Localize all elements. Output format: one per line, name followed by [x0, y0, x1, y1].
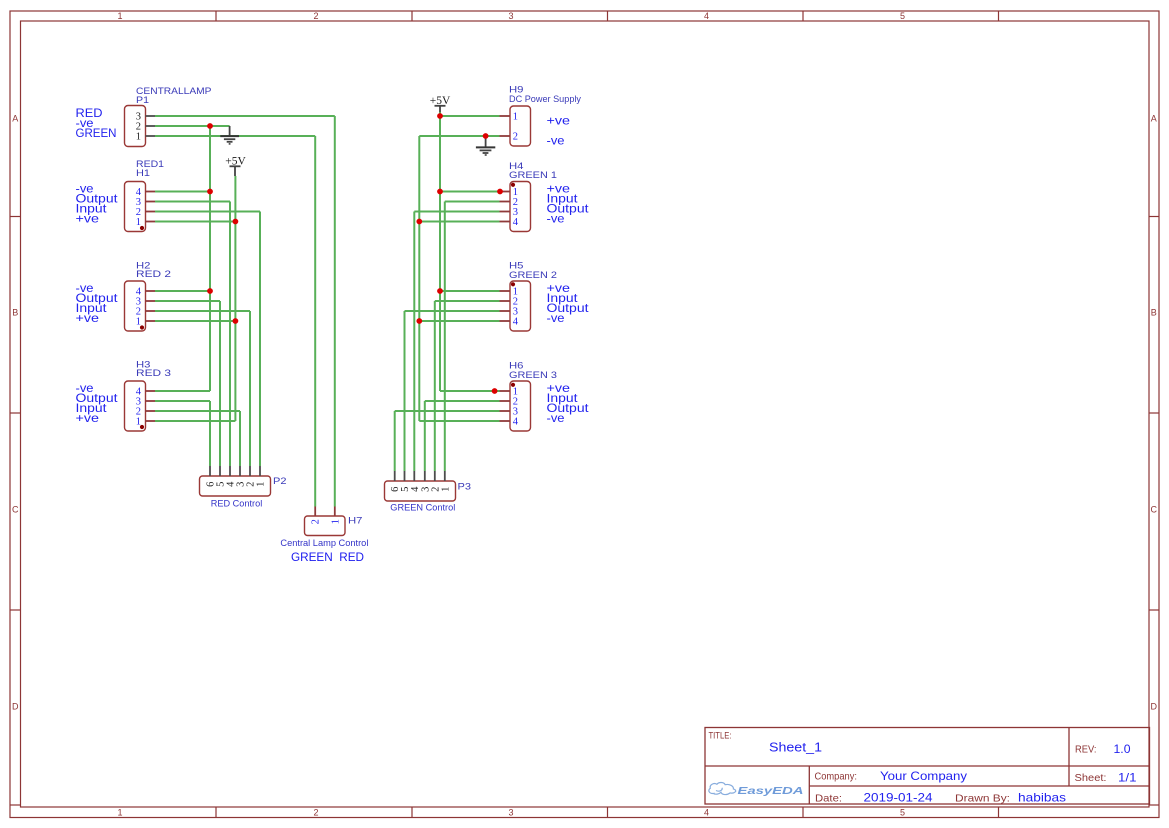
wire H6.4 to ground rail	[419, 420, 499, 422]
svg-text:4: 4	[410, 486, 421, 492]
svg-text:1: 1	[136, 132, 141, 143]
wire H2.2 horizontal	[155, 310, 250, 312]
svg-text:RED Control: RED Control	[211, 499, 263, 510]
svg-text:D: D	[1151, 702, 1158, 712]
svg-text:habibas: habibas	[1018, 791, 1066, 805]
wire P1.2 to ground	[155, 125, 230, 127]
wire P1.1 horizontal	[155, 135, 315, 137]
svg-text:+ve: +ve	[76, 214, 100, 226]
junction H4.1 rail	[437, 189, 443, 195]
junction +5V H9.1	[437, 113, 443, 119]
svg-text:-ve: -ve	[547, 413, 565, 425]
wire H3.2 down to P2.3	[239, 411, 241, 466]
H6 pin1 marker dot	[511, 383, 515, 387]
svg-text:B: B	[1151, 308, 1157, 318]
svg-text:4: 4	[513, 417, 519, 428]
svg-text:Date:: Date:	[815, 792, 842, 804]
svg-text:C: C	[1151, 505, 1158, 515]
junction H6.1 stub	[492, 388, 498, 394]
svg-text:P2: P2	[273, 476, 287, 487]
wire H5.4 to ground rail	[419, 320, 499, 322]
svg-text:1: 1	[136, 317, 141, 328]
connector H9	[500, 106, 531, 146]
EasyEDA logo	[709, 783, 804, 798]
title block frame	[705, 728, 1150, 805]
wire H6.3 horizontal	[395, 410, 500, 412]
svg-text:DC Power Supply: DC Power Supply	[509, 94, 581, 105]
svg-text:+ve: +ve	[547, 115, 571, 127]
wire H4.1 to +5V rail	[440, 191, 500, 193]
svg-text:D: D	[12, 702, 19, 712]
connector H2	[125, 281, 156, 331]
wire H9.2 to ground rail	[419, 135, 499, 137]
H5 pin1 marker dot	[511, 282, 515, 286]
wire H5.1 to +5V rail	[440, 290, 500, 292]
wire +5V rail right	[439, 112, 441, 391]
connector H5	[500, 281, 531, 331]
ruler column numbers top	[117, 11, 905, 21]
ruler row letters right	[1151, 114, 1158, 712]
wire H3.2 horizontal	[155, 410, 240, 412]
wire H5.3 horizontal	[405, 310, 500, 312]
svg-text:1: 1	[513, 112, 518, 123]
wire H3.3 down to P2.6	[209, 401, 211, 466]
junction H5.1 rail	[437, 288, 443, 294]
connector H6	[500, 381, 531, 431]
wire H5.2 horizontal	[435, 300, 500, 302]
svg-text:GREEN: GREEN	[76, 128, 117, 140]
svg-text:C: C	[12, 505, 19, 515]
svg-text:GREEN 1: GREEN 1	[509, 170, 557, 181]
wire H2.4 to rail	[155, 290, 210, 292]
wire H3.3 horizontal	[155, 400, 210, 402]
svg-text:1: 1	[117, 11, 122, 21]
svg-text:1: 1	[256, 482, 267, 487]
wire H6.2 down to P3.3	[424, 401, 426, 471]
ruler row letters left	[12, 114, 19, 712]
svg-text:3: 3	[508, 807, 513, 817]
junction H9.2 ground	[483, 133, 489, 139]
H2 pin1 marker dot	[140, 325, 144, 329]
ruler column numbers bottom	[117, 807, 905, 817]
connector P3	[385, 471, 456, 501]
connector H7	[305, 507, 346, 536]
svg-text:REV:: REV:	[1075, 744, 1097, 756]
svg-text:GREEN RED: GREEN RED	[291, 552, 364, 564]
connector H1	[125, 182, 156, 232]
H4 pin1 marker dot	[511, 183, 515, 187]
junction H5.4 rail	[416, 318, 422, 324]
svg-text:2: 2	[311, 519, 322, 524]
svg-text:4: 4	[513, 217, 519, 228]
connector P2	[200, 466, 271, 496]
svg-text:Central Lamp Control: Central Lamp Control	[280, 538, 368, 549]
wire H2.1 to +5V rail	[155, 320, 235, 322]
svg-text:+ve: +ve	[76, 313, 100, 325]
wire H3.1 to +5V rail	[155, 420, 235, 422]
connector P1	[125, 106, 156, 147]
svg-text:1/1: 1/1	[1118, 770, 1137, 784]
svg-text:5: 5	[900, 807, 905, 817]
wire H1.3 down to P2.4	[229, 202, 231, 467]
wire H1.4 to rail	[155, 191, 210, 193]
ruler ticks bottom	[216, 807, 999, 818]
ruler ticks left	[10, 217, 21, 806]
svg-text:RED 2: RED 2	[136, 269, 171, 280]
wire H4.3 horizontal	[414, 211, 499, 213]
svg-text:TITLE:: TITLE:	[709, 731, 732, 741]
wire +5V rail left	[234, 176, 236, 421]
svg-text:2: 2	[313, 11, 318, 21]
wire H4.2 horizontal	[445, 201, 500, 203]
svg-text:1: 1	[136, 217, 141, 228]
H1 pin1 marker dot	[140, 226, 144, 230]
wire H2.3 down to P2.5	[219, 301, 221, 466]
wire H5.3 down to P3.5	[404, 311, 406, 471]
svg-text:-ve: -ve	[547, 313, 565, 325]
svg-text:3: 3	[508, 11, 513, 21]
svg-text:2019-01-24: 2019-01-24	[864, 791, 933, 805]
svg-text:5: 5	[900, 11, 905, 21]
svg-text:P3: P3	[458, 482, 472, 493]
junction H4.1 stub	[497, 189, 503, 195]
junction P1.2 rail	[207, 123, 213, 129]
svg-text:Sheet_1: Sheet_1	[769, 740, 822, 755]
svg-text:GREEN Control: GREEN Control	[390, 503, 455, 514]
svg-text:-ve: -ve	[547, 214, 565, 226]
svg-text:A: A	[1151, 114, 1157, 124]
svg-text:H7: H7	[348, 515, 363, 526]
ground symbol (right, net of H9 pin 2)	[476, 136, 495, 155]
+5V net flag (right)	[430, 93, 451, 112]
svg-text:Drawn By:: Drawn By:	[955, 792, 1010, 804]
svg-text:2: 2	[513, 132, 518, 143]
svg-text:A: A	[12, 114, 18, 124]
svg-text:Company:: Company:	[815, 771, 858, 783]
svg-text:+ve: +ve	[76, 413, 100, 425]
ruler ticks right	[1149, 217, 1159, 806]
svg-text:1: 1	[117, 807, 122, 817]
svg-text:B: B	[12, 308, 18, 318]
svg-text:P1: P1	[136, 95, 149, 106]
junction H4.4 rail	[416, 219, 422, 225]
wire H1.2 horizontal	[155, 211, 260, 213]
+5V net flag (left)	[225, 153, 246, 176]
wire H2.3 horizontal	[155, 300, 220, 302]
wire H5.2 down to P3.2	[434, 301, 436, 471]
svg-text:1: 1	[330, 519, 341, 524]
connector H3	[125, 381, 156, 431]
svg-text:H1: H1	[136, 168, 150, 179]
svg-text:GREEN 2: GREEN 2	[509, 270, 557, 281]
wire ground rail right	[418, 136, 420, 421]
wire H4.3 down to P3.4	[413, 212, 415, 472]
wire H6.3 down to P3.6	[394, 411, 396, 471]
connector H4	[500, 182, 531, 232]
ground symbol (left, net of P1 pin 2)	[220, 126, 239, 144]
wire H1.1 to +5V rail	[155, 221, 235, 223]
svg-text:GREEN 3: GREEN 3	[509, 370, 557, 381]
svg-text:4: 4	[704, 11, 709, 21]
ruler ticks top	[216, 11, 999, 21]
svg-text:EasyEDA: EasyEDA	[738, 786, 804, 797]
wire net from P1.2 down to H3.4 rail	[209, 126, 211, 391]
wire H1.2 down to P2.1	[259, 212, 261, 467]
wire +5V to H9.1	[440, 115, 500, 117]
junction H1.4	[207, 189, 213, 195]
wire H6.1 to +5V rail	[440, 390, 500, 392]
svg-text:4: 4	[513, 317, 519, 328]
svg-text:2: 2	[313, 807, 318, 817]
svg-text:+5V: +5V	[225, 153, 246, 167]
wire H3.4 to rail	[155, 390, 210, 392]
wire H2.2 down to P2.2	[249, 311, 251, 466]
wire P1.3 down to H7.1	[334, 116, 336, 507]
wire H4.2 down to P3.1	[444, 202, 446, 472]
wire H6.2 horizontal	[425, 400, 500, 402]
wire H4.4 to ground rail	[419, 221, 499, 223]
junction H2.4	[207, 288, 213, 294]
svg-text:Your Company: Your Company	[880, 769, 967, 783]
svg-text:Sheet:: Sheet:	[1075, 772, 1107, 784]
wire P1.1 down to H7.2	[314, 136, 316, 507]
svg-text:1: 1	[136, 417, 141, 428]
svg-text:RED 3: RED 3	[136, 368, 171, 379]
junction H2.1 +5V	[233, 318, 239, 324]
wire P1.3 horizontal	[155, 115, 335, 117]
wire H1.3 horizontal	[155, 201, 230, 203]
svg-text:1: 1	[440, 487, 451, 492]
junction H1.1 +5V	[233, 219, 239, 225]
H3 pin1 marker dot	[140, 425, 144, 429]
svg-text:4: 4	[704, 807, 709, 817]
svg-text:-ve: -ve	[547, 136, 565, 148]
svg-text:1.0: 1.0	[1114, 742, 1131, 756]
